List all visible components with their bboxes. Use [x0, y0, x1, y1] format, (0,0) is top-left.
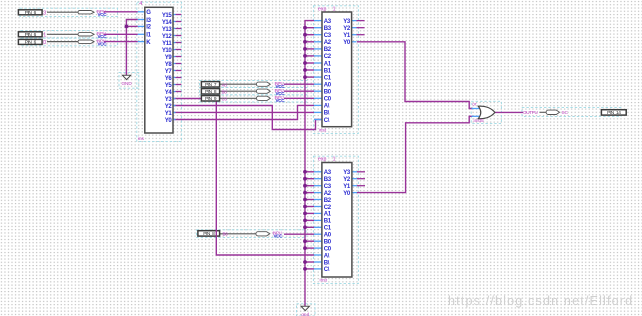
svg-text:VCC: VCC: [276, 98, 286, 103]
wire OUTPUT label to symbol: [540, 111, 547, 113]
svg-text:gnd: gnd: [301, 312, 309, 316]
input pin PIN_8 b: [198, 231, 220, 237]
svg-text:C2: C2: [324, 54, 332, 60]
wire decoder Y2 to exp U2 C': [173, 106, 322, 130]
svg-text:C1: C1: [324, 226, 332, 232]
input port symbol 3: [78, 40, 94, 43]
wire exp U2 Y0 to or gate: [357, 42, 473, 109]
svg-text:PIN_6: PIN_6: [25, 10, 37, 16]
input pin PIN_60: [18, 39, 42, 45]
junction: [303, 54, 307, 58]
svg-text:PIN_14: PIN_14: [607, 110, 621, 116]
exp U3 output stubs: [352, 171, 357, 173]
svg-text:Y1: Y1: [165, 111, 173, 117]
input pin PIN_61: [18, 32, 42, 38]
selection box or gate: [471, 101, 501, 123]
svg-text:1: 1: [333, 156, 336, 162]
or gate input stub 1: [472, 108, 481, 110]
wire net to decoder I1: [104, 33, 138, 35]
vcc label 6: [275, 95, 286, 103]
selection box input pin 5: [200, 88, 308, 95]
wire or gate output: [495, 111, 523, 113]
output port symbol: [546, 110, 559, 114]
svg-text:or: or: [472, 102, 477, 108]
svg-text:Y15: Y15: [162, 13, 173, 19]
svg-text:A0: A0: [324, 233, 332, 239]
svg-text:Y1: Y1: [343, 184, 351, 190]
ground symbol 2: [301, 306, 309, 316]
junction: [303, 219, 307, 223]
wire pin3 to input symbol: [47, 41, 78, 43]
junction: [303, 33, 307, 37]
svg-text:Y8: Y8: [165, 62, 173, 68]
input pin PIN_7: [201, 82, 219, 88]
wire branch: [305, 69, 314, 71]
svg-text:B2: B2: [324, 198, 332, 204]
wire branch: [305, 185, 314, 187]
svg-text:A0: A0: [324, 83, 332, 89]
junction: [303, 239, 307, 243]
svg-text:B0: B0: [324, 90, 332, 96]
input port symbol 2: [78, 33, 94, 36]
vcc label 1: [97, 9, 108, 17]
junction: [303, 267, 307, 271]
svg-text:PIN_6: PIN_6: [25, 40, 37, 46]
wire branch: [305, 41, 314, 43]
exp U3 input stubs: [314, 171, 322, 173]
junction: [303, 68, 307, 72]
wire net to decoder G: [104, 11, 138, 13]
wire pin4 to input symbol: [220, 83, 257, 85]
selection box gnd 1: [119, 73, 139, 89]
exp block U3: [322, 163, 352, 278]
wire net to exp U2 C0: [284, 97, 314, 99]
svg-text:B\: B\: [324, 260, 330, 266]
wire gnd trunk feeding exp blocks: [305, 21, 314, 307]
wire pin6 to input symbol: [220, 97, 257, 99]
svg-text:Y14: Y14: [162, 20, 173, 26]
svg-text:C1: C1: [324, 75, 332, 81]
selection box input pin 3: [21, 38, 118, 46]
input port symbol 7: [256, 232, 270, 236]
svg-text:Y3: Y3: [165, 97, 173, 103]
selection box decoder U1: [137, 2, 182, 141]
junction: [303, 198, 307, 202]
svg-text:1: 1: [43, 32, 46, 38]
junction: [303, 170, 307, 174]
output pin PIN_14: [601, 110, 626, 116]
wire branch: [305, 261, 314, 263]
svg-text:https://blog.csdn.net/Ellford: https://blog.csdn.net/Ellford: [448, 294, 633, 308]
junction: [303, 40, 307, 44]
junction: [303, 260, 307, 264]
svg-text:GND: GND: [121, 81, 132, 86]
svg-text:Y9: Y9: [165, 55, 173, 61]
svg-text:Y12: Y12: [162, 34, 173, 40]
input pin PIN_63: [18, 10, 42, 16]
svg-text:A1: A1: [324, 212, 332, 218]
junction: [303, 75, 307, 79]
wire trunk over pin box: [215, 230, 217, 238]
junction: [303, 205, 307, 209]
svg-text:C3: C3: [324, 33, 332, 39]
wire branch: [305, 55, 314, 57]
svg-text:B3: B3: [324, 26, 332, 32]
wire net to exp U2 B0: [284, 90, 314, 92]
svg-text:PIN_7: PIN_7: [205, 82, 217, 88]
wire decoder Y3 to exp U3 A': [173, 99, 314, 256]
decoder input stubs: [138, 11, 145, 13]
svg-text:G: G: [146, 10, 151, 16]
svg-text:A1: A1: [324, 61, 332, 67]
svg-text:3: 3: [43, 10, 46, 16]
svg-text:OUTPU: OUTPU: [523, 110, 538, 115]
exp U2 output stubs: [352, 20, 357, 22]
svg-text:Y2: Y2: [343, 177, 351, 183]
svg-text:Y1: Y1: [343, 33, 351, 39]
svg-text:A0: A0: [222, 82, 228, 87]
wire pin1 to input symbol: [47, 11, 78, 13]
svg-text:Y10: Y10: [162, 48, 173, 54]
or gate U4: [478, 106, 495, 119]
wire branch: [305, 48, 314, 50]
svg-text:PIN_9: PIN_9: [205, 96, 217, 102]
svg-text:B1: B1: [324, 219, 332, 225]
svg-text:A\: A\: [324, 104, 330, 110]
input pin PIN_9: [201, 96, 219, 102]
wire exp U3 Y0 to or gate: [357, 116, 473, 192]
svg-text:ins: ins: [138, 136, 145, 142]
svg-text:VCC: VCC: [98, 41, 108, 46]
vcc label 2: [97, 31, 108, 39]
junction on gnd trunk: [125, 25, 129, 29]
input port symbol 1: [78, 11, 94, 14]
decoder block U1: [145, 7, 173, 133]
selection box input pin 7: [197, 230, 307, 238]
vcc label 5: [275, 88, 286, 96]
svg-text:C2: C2: [324, 205, 332, 211]
svg-text:Y0: Y0: [343, 191, 351, 197]
svg-text:A2: A2: [324, 40, 332, 46]
svg-text:PIN_8: PIN_8: [205, 89, 217, 95]
junction: [303, 47, 307, 51]
junction: [303, 177, 307, 181]
wire gnd trunk to decoder I3 I2: [126, 20, 137, 76]
wire net to exp U2 A0: [284, 83, 314, 85]
wire branch: [305, 34, 314, 36]
selection box input pin 6: [200, 95, 308, 102]
svg-text:Y2: Y2: [343, 26, 351, 32]
wire pin7 to input symbol: [220, 233, 256, 235]
svg-text:C\: C\: [324, 118, 330, 124]
input port symbol 6: [256, 96, 270, 100]
svg-text:B0: B0: [222, 89, 228, 94]
wire branch: [305, 178, 314, 180]
wire branch: [305, 171, 314, 173]
selection box exp U2: [313, 6, 358, 134]
svg-text:VCC: VCC: [274, 233, 284, 238]
wire decoder Y1 to exp U2 B': [173, 111, 314, 113]
svg-text:Y13: Y13: [162, 27, 173, 33]
wire net to decoder K: [104, 41, 138, 43]
svg-text:B0: B0: [324, 240, 332, 246]
svg-text:A\: A\: [324, 253, 330, 259]
junction: [303, 61, 307, 65]
svg-text:1: 1: [333, 6, 336, 12]
svg-text:C0: C0: [324, 97, 332, 103]
svg-text:B\: B\: [324, 111, 330, 117]
or gate input stub 2: [472, 115, 481, 117]
wire branch: [305, 247, 314, 249]
svg-text:0: 0: [43, 40, 46, 46]
input pin PIN_8: [201, 89, 219, 95]
selection box input pin 4: [200, 80, 308, 87]
svg-text:Y5: Y5: [165, 83, 173, 89]
junction: [303, 184, 307, 188]
wire decoder Y0 to exp U2 A': [173, 105, 314, 119]
wire pin2 to input symbol: [47, 33, 78, 35]
svg-text:4: 4: [139, 1, 142, 7]
exp block U2: [322, 12, 352, 127]
wire branch: [305, 206, 314, 208]
svg-text:Y7: Y7: [165, 69, 173, 75]
svg-text:Y3: Y3: [343, 170, 351, 176]
svg-text:Y4: Y4: [165, 90, 173, 96]
svg-text:exp: exp: [318, 156, 326, 162]
svg-text:Y0: Y0: [165, 118, 173, 124]
svg-text:Y0: Y0: [343, 40, 351, 46]
svg-text:inst: inst: [320, 277, 328, 283]
svg-text:C0: C0: [222, 96, 228, 101]
svg-text:B3: B3: [324, 177, 332, 183]
wire branch: [305, 27, 314, 29]
svg-text:B2: B2: [324, 47, 332, 53]
vcc label 7: [273, 230, 284, 238]
svg-text:PIN_8: PIN_8: [203, 231, 215, 237]
junction: [303, 191, 307, 195]
svg-text:PIN_6: PIN_6: [25, 32, 37, 38]
junction: [303, 246, 307, 250]
vcc label 4: [275, 81, 286, 89]
svg-text:A3: A3: [324, 19, 332, 25]
selection box output pin: [522, 108, 621, 117]
selection box input pin 1: [20, 8, 118, 16]
junction: [303, 26, 307, 30]
svg-text:Y6: Y6: [165, 76, 173, 82]
svg-text:VCC: VCC: [98, 12, 108, 17]
svg-text:SC: SC: [562, 110, 569, 115]
wire pin5 to input symbol: [220, 90, 257, 92]
svg-text:B1: B1: [324, 68, 332, 74]
svg-text:A3: A3: [324, 170, 332, 176]
ground symbol 1: [121, 75, 132, 86]
vcc label 3: [97, 38, 108, 46]
svg-text:Y2: Y2: [165, 104, 173, 110]
decoder output stubs: [176, 14, 182, 16]
svg-text:A2: A2: [324, 191, 332, 197]
wire branch: [305, 192, 314, 194]
wire branch: [305, 76, 314, 78]
svg-text:C0: C0: [324, 246, 332, 252]
wire branch: [305, 240, 314, 242]
selection box input pin 2: [21, 30, 118, 38]
wire branch: [305, 226, 314, 228]
svg-text:exp: exp: [318, 6, 326, 12]
selection box exp U3: [313, 156, 358, 283]
wire branch: [305, 199, 314, 201]
svg-text:C\: C\: [324, 267, 330, 273]
junction: [303, 212, 307, 216]
svg-text:inst: inst: [319, 127, 327, 133]
input port symbol 5: [256, 89, 270, 93]
wire branch: [305, 219, 314, 221]
svg-text:C3: C3: [324, 184, 332, 190]
exp U2 input stubs: [314, 20, 322, 22]
wire branch: [305, 212, 314, 214]
selection box gnd 2: [297, 304, 316, 316]
svg-text:B0: B0: [223, 232, 229, 237]
junction: [303, 225, 307, 229]
wire branch: [305, 62, 314, 64]
svg-text:Y3: Y3: [343, 19, 351, 25]
svg-text:Y11: Y11: [162, 41, 172, 47]
svg-text:inst5: inst5: [474, 118, 484, 124]
input port symbol 4: [256, 82, 270, 86]
wire net to exp U3 A0: [284, 233, 314, 235]
wire branch: [305, 268, 314, 270]
wire branch to I2: [126, 25, 137, 27]
